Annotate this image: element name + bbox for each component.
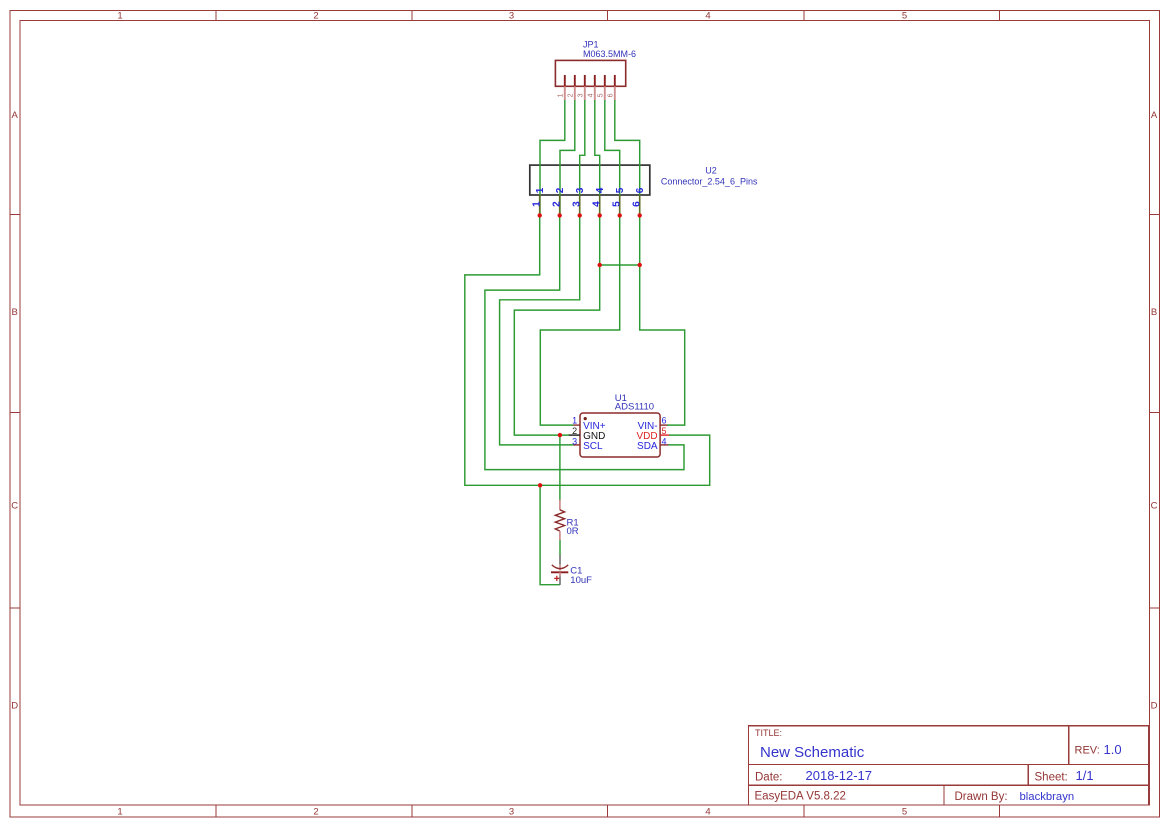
U1 pin 3 stub [574, 444, 581, 446]
svg-text:Connector_2.54_6_Pins: Connector_2.54_6_Pins [661, 176, 758, 186]
svg-text:B: B [1151, 307, 1157, 318]
IC U1 ADS1110 body [580, 413, 660, 457]
zone labels columns top [117, 11, 907, 22]
svg-text:5: 5 [612, 201, 623, 207]
wire U2.6 to U1 VIN- [640, 215, 685, 425]
svg-text:1: 1 [117, 11, 122, 22]
U2 pin numbers below (rotated) [532, 201, 643, 207]
connector U2 body [530, 165, 650, 195]
zone labels rows left [11, 110, 18, 712]
wire JP1.3 to U2.3 [580, 100, 585, 215]
svg-text:1: 1 [572, 416, 577, 426]
svg-text:TITLE:: TITLE: [755, 728, 782, 738]
svg-text:C: C [11, 501, 18, 512]
U1 pin 4 stub [660, 444, 668, 446]
svg-text:Date:: Date: [755, 771, 783, 783]
svg-text:4: 4 [662, 437, 667, 447]
svg-text:2018-12-17: 2018-12-17 [806, 768, 873, 783]
junction dots [538, 213, 642, 487]
resistor R1 top stub [559, 500, 561, 511]
wire U2.3 to U1 SCL [500, 215, 580, 445]
svg-text:6: 6 [662, 416, 667, 426]
U1 pin 2 stub [569, 434, 580, 436]
capacitor C1 top pin inner [559, 565, 561, 571]
column tick marks bottom [216, 805, 1000, 817]
connector JP1 body [555, 60, 625, 86]
svg-text:6: 6 [635, 187, 646, 193]
JP1 pin numbers [558, 93, 615, 97]
U2 pin names inside (rotated) [535, 187, 646, 193]
wire U2.4 to U2.6 bridge [600, 264, 640, 266]
svg-text:6: 6 [632, 201, 643, 207]
wire JP1.5 to U2.5 [605, 100, 620, 215]
svg-text:REV:: REV: [1075, 745, 1100, 757]
U1 pin 5 stub [660, 434, 669, 436]
svg-text:4: 4 [588, 93, 595, 97]
svg-text:B: B [12, 307, 18, 318]
svg-text:D: D [1151, 701, 1158, 712]
row tick marks right [1149, 215, 1159, 608]
svg-text:2: 2 [552, 201, 563, 207]
svg-text:1: 1 [535, 187, 546, 193]
U1 pin-1 marker dot [584, 417, 587, 420]
svg-text:0R: 0R [567, 526, 579, 537]
U1 pin 1 stub [574, 424, 581, 426]
svg-text:10uF: 10uF [570, 575, 592, 586]
JP1 pin stubs (pale) [565, 86, 615, 100]
wire JP1.4 to U2.4 [595, 100, 600, 215]
zone labels columns bottom [117, 806, 907, 817]
wire GND to R1 [559, 435, 561, 500]
wire JP1.2 to U2.2 [560, 100, 575, 215]
resistor R1 zigzag [555, 510, 564, 531]
svg-text:6: 6 [608, 93, 615, 97]
svg-text:4: 4 [595, 187, 606, 193]
svg-text:3: 3 [509, 806, 514, 817]
svg-text:4: 4 [705, 11, 710, 22]
svg-text:1.0: 1.0 [1104, 742, 1122, 757]
wire R1 to C1 [559, 540, 561, 556]
zone labels rows right [1151, 110, 1158, 712]
svg-text:5: 5 [902, 11, 907, 22]
svg-text:U2: U2 [705, 166, 717, 176]
svg-text:EasyEDA V5.8.22: EasyEDA V5.8.22 [755, 791, 846, 803]
JP1 pin stubs (dark) [565, 75, 615, 86]
title block box [749, 726, 1149, 805]
U2 pin stubs (olive) [540, 195, 640, 213]
svg-text:A: A [12, 110, 19, 121]
wire U2.5 to U1 VIN+ [540, 215, 619, 425]
column tick marks top [216, 10, 1000, 20]
svg-text:ADS1110: ADS1110 [615, 402, 654, 413]
svg-text:1: 1 [558, 93, 565, 97]
svg-text:4: 4 [592, 201, 603, 207]
U1 pin 6 stub [660, 424, 667, 426]
row tick marks left [10, 215, 20, 608]
svg-text:3: 3 [509, 11, 514, 22]
svg-text:3: 3 [572, 437, 577, 447]
svg-text:3: 3 [575, 187, 586, 193]
svg-text:Drawn By:: Drawn By: [955, 791, 1008, 803]
svg-text:2: 2 [572, 426, 577, 436]
svg-text:5: 5 [615, 187, 626, 193]
C1 plus sign [554, 576, 559, 581]
svg-text:1/1: 1/1 [1076, 768, 1094, 783]
svg-text:SCL: SCL [583, 441, 603, 452]
svg-text:4: 4 [705, 806, 710, 817]
svg-text:2: 2 [313, 806, 318, 817]
wire JP1.1 to U2.1 [540, 100, 565, 215]
svg-text:1: 1 [117, 806, 122, 817]
svg-text:New Schematic: New Schematic [760, 744, 865, 761]
wire U2.4 to U1 GND [514, 215, 599, 435]
capacitor C1 bottom pin inner [559, 572, 561, 576]
wire U2.2 to U1 SDA [485, 215, 684, 469]
svg-text:5: 5 [598, 93, 605, 97]
svg-text:blackbrayn: blackbrayn [1020, 791, 1075, 803]
svg-text:D: D [11, 701, 18, 712]
svg-text:2: 2 [568, 93, 575, 97]
wire JP1.6 to U2.6 [615, 100, 640, 215]
svg-text:5: 5 [662, 426, 667, 436]
svg-text:2: 2 [555, 187, 566, 193]
svg-text:2: 2 [313, 11, 318, 22]
svg-text:Sheet:: Sheet: [1035, 772, 1068, 784]
svg-text:3: 3 [572, 201, 583, 207]
svg-text:M063.5MM-6: M063.5MM-6 [583, 49, 636, 59]
svg-text:A: A [1151, 110, 1158, 121]
capacitor C1 curved plate [552, 565, 568, 569]
svg-text:5: 5 [902, 806, 907, 817]
svg-text:3: 3 [578, 93, 585, 97]
wire U2.1 to U1 VDD loop [465, 215, 710, 485]
capacitor C1 top pin [559, 555, 561, 565]
capacitor C1 straight plate [551, 571, 568, 573]
capacitor C1 bottom pin [559, 577, 561, 585]
svg-text:1: 1 [532, 201, 543, 207]
wire branch to C1 bottom [540, 485, 560, 584]
resistor R1 bottom stub [559, 531, 561, 540]
svg-text:SDA: SDA [637, 441, 658, 452]
svg-text:C: C [1151, 501, 1158, 512]
